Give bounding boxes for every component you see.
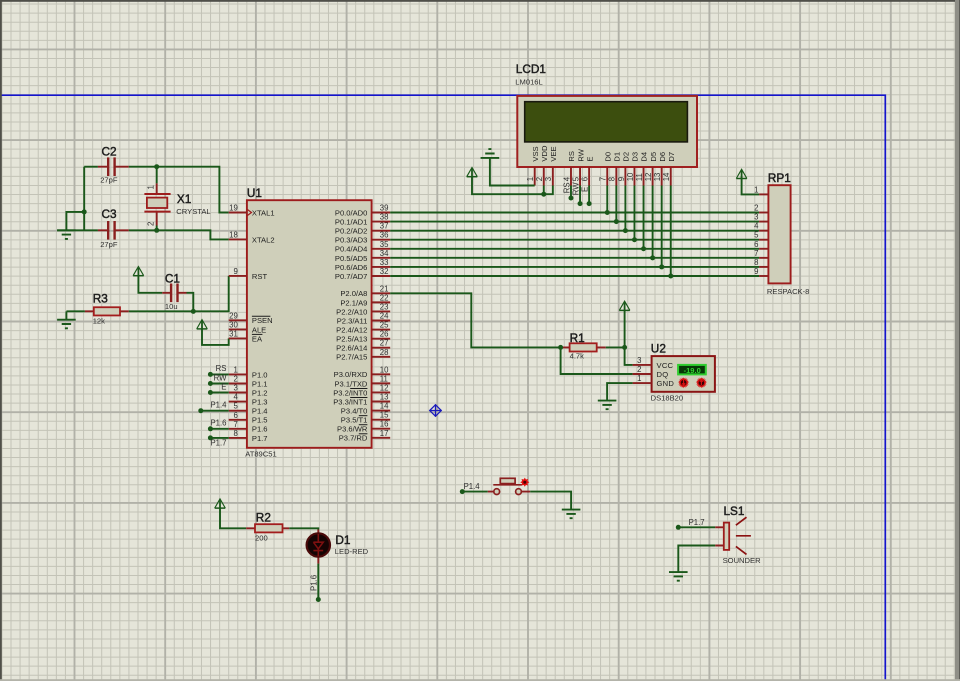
pin 3 (VCC) U2 <box>633 356 674 370</box>
sheet border (blue) <box>0 95 885 681</box>
svg-text:R2: R2 <box>256 511 271 525</box>
pin 17 (P3.7/RD) U1 <box>339 429 391 443</box>
button actuator star <box>520 478 529 487</box>
svg-text:P3.5/T1: P3.5/T1 <box>341 416 368 425</box>
svg-text:P3.2/INT0: P3.2/INT0 <box>333 388 367 397</box>
pin 16 (P3.6/WR) U1 <box>337 420 390 434</box>
pin 26 (P2.5/A13) U1 <box>336 330 390 344</box>
resistor R1 <box>561 331 606 361</box>
svg-text:EA: EA <box>252 334 263 343</box>
svg-text:7: 7 <box>233 420 237 429</box>
node D7/P0.7 junction <box>668 273 673 278</box>
svg-text:AT89C51: AT89C51 <box>245 450 277 459</box>
pin 22 (P2.1/A9) U1 <box>340 293 390 307</box>
svg-text:3: 3 <box>754 213 758 222</box>
pin 3 (P1.2) U1 <box>229 384 268 398</box>
pin 6 RP1 <box>754 240 768 249</box>
svg-text:P3.6/WR: P3.6/WR <box>337 425 368 434</box>
svg-text:5: 5 <box>754 231 759 240</box>
wire P0.2 bus <box>390 230 759 232</box>
wire D4 to P0.4 <box>643 186 645 249</box>
power arrow (R1/U2 VCC) <box>619 301 630 310</box>
U2 button up <box>696 377 707 388</box>
svg-text:12: 12 <box>380 383 389 392</box>
node P1.7 (sounder) <box>676 525 681 530</box>
wire P0.5 bus <box>390 257 759 259</box>
pin 38 (P0.1/AD1) U1 <box>335 213 390 227</box>
temperature sensor U2 DS18B20 body <box>651 341 715 402</box>
svg-text:P1.7: P1.7 <box>252 434 268 443</box>
svg-text:E: E <box>585 157 594 162</box>
wire DQ net <box>561 347 633 374</box>
power arrow (R2) <box>215 499 226 508</box>
svg-text:E: E <box>581 187 590 192</box>
wire P0.7 bus <box>390 275 759 277</box>
svg-text:D4: D4 <box>640 152 649 162</box>
ground (button) <box>562 510 581 519</box>
svg-text:39: 39 <box>380 204 389 213</box>
wire C2 left to node <box>84 166 98 168</box>
microcontroller U1 AT89C51 body <box>245 186 371 459</box>
pin 5 RP1 <box>754 231 768 240</box>
node: C2/X1 junction <box>154 164 159 169</box>
pin 13 (P3.3/INT1) U1 <box>333 393 390 407</box>
svg-text:P0.1/AD1: P0.1/AD1 <box>335 217 368 226</box>
power arrow (EA) <box>197 320 208 329</box>
pin 39 (P0.0/AD0) U1 <box>335 204 390 218</box>
pin 24 (P2.3/A11) U1 <box>337 312 390 326</box>
svg-text:15: 15 <box>380 411 389 420</box>
svg-text:7: 7 <box>599 177 608 181</box>
svg-text:P2.6/A14: P2.6/A14 <box>336 344 367 353</box>
svg-text:RW: RW <box>571 182 580 195</box>
svg-text:P1.7: P1.7 <box>210 438 226 447</box>
svg-text:22: 22 <box>380 293 389 302</box>
svg-text:P0.3/AD3: P0.3/AD3 <box>335 236 368 245</box>
pin 1 (P1.0) U1 <box>229 365 268 379</box>
pin 33 (P0.6/AD6) U1 <box>335 258 390 272</box>
node P1.6 <box>208 426 213 431</box>
svg-text:VSS: VSS <box>531 146 540 161</box>
svg-text:P0.5/AD5: P0.5/AD5 <box>335 254 368 263</box>
pin 14 (P3.4/T0) U1 <box>341 402 390 416</box>
wire net E (LCD) <box>588 186 590 204</box>
wire power to C1 <box>138 276 162 293</box>
cursor crosshair <box>429 404 441 416</box>
wire net RW to U1 <box>210 383 228 385</box>
svg-text:38: 38 <box>380 213 389 222</box>
svg-text:-19.0: -19.0 <box>684 366 701 375</box>
wire net P1.7 to U1 <box>210 437 228 439</box>
svg-text:P1.6: P1.6 <box>252 425 268 434</box>
svg-text:LS1: LS1 <box>724 504 745 518</box>
node: C3/X1 junction <box>154 228 159 233</box>
svg-text:3: 3 <box>233 384 237 393</box>
svg-text:P1.6: P1.6 <box>210 419 226 428</box>
svg-text:R3: R3 <box>93 292 109 306</box>
svg-text:3: 3 <box>637 356 641 365</box>
svg-text:DS18B20: DS18B20 <box>651 394 684 403</box>
wire D1 to node P1.6 <box>317 564 319 600</box>
svg-text:32: 32 <box>380 267 389 276</box>
svg-text:U2: U2 <box>651 341 666 355</box>
svg-text:D0: D0 <box>603 152 612 162</box>
svg-text:P1.7: P1.7 <box>689 518 705 527</box>
pin 9 (D2) LCD1 <box>617 152 631 186</box>
svg-text:P2.5/A13: P2.5/A13 <box>336 335 367 344</box>
wire C1 to RST node <box>187 293 194 312</box>
pin 8 (P1.7) U1 <box>229 429 268 443</box>
svg-text:9: 9 <box>233 267 237 276</box>
svg-text:RS: RS <box>216 364 227 373</box>
svg-text:U1: U1 <box>247 186 262 200</box>
svg-text:12: 12 <box>644 173 653 182</box>
svg-text:P1.4: P1.4 <box>210 401 227 410</box>
wire D1 to P0.1 <box>615 186 617 222</box>
pin 15 (P3.5/T1) U1 <box>341 411 390 425</box>
svg-text:27: 27 <box>380 339 389 348</box>
svg-text:27pF: 27pF <box>100 240 118 249</box>
wire net P1.6 to U1 <box>210 428 228 430</box>
svg-text:2: 2 <box>754 204 758 213</box>
LCD LCD1 LM016L body <box>515 62 697 167</box>
capacitor C2 <box>98 145 129 185</box>
wire ground to R3 <box>66 311 85 319</box>
crystal X1 <box>144 183 210 225</box>
power arrow (RP1) <box>736 169 747 178</box>
node RS (LCD) <box>568 196 573 201</box>
svg-text:LED-RED: LED-RED <box>335 547 369 556</box>
wire C2 right to XTAL1 <box>129 167 229 213</box>
svg-text:C3: C3 <box>102 207 118 221</box>
node P1.6 (bottom) <box>316 597 321 602</box>
pin 13 (D6) LCD1 <box>653 152 667 186</box>
svg-text:P0.2/AD2: P0.2/AD2 <box>335 227 368 236</box>
svg-text:XTAL2: XTAL2 <box>252 235 275 244</box>
svg-text:LCD1: LCD1 <box>516 62 546 76</box>
pin 4 (P1.3) U1 <box>229 393 268 407</box>
svg-text:P1.1: P1.1 <box>252 379 268 388</box>
svg-text:8: 8 <box>754 258 758 267</box>
svg-text:P0.0/AD0: P0.0/AD0 <box>335 208 368 217</box>
node P1.4 <box>198 408 203 413</box>
pin 12 (D5) LCD1 <box>644 152 658 186</box>
pin 4 (RS) LCD1 <box>562 151 576 185</box>
wire net RW (LCD) <box>579 186 581 204</box>
wire net RS to U1 <box>210 373 228 375</box>
svg-text:10: 10 <box>626 172 635 181</box>
wire R3 to RST <box>129 276 229 311</box>
svg-text:13: 13 <box>380 393 389 402</box>
svg-text:8: 8 <box>608 177 617 181</box>
node P1.7 <box>208 435 213 440</box>
pin 5 (RW) LCD1 <box>571 148 585 185</box>
svg-text:11: 11 <box>380 374 388 383</box>
pin 29 (PSEN) U1 <box>229 311 273 325</box>
svg-text:P1.3: P1.3 <box>252 398 268 407</box>
capacitor C1 <box>162 272 186 311</box>
wire U2 GND to ground <box>607 383 633 401</box>
pin 36 (P0.3/AD3) U1 <box>335 231 390 245</box>
svg-text:P3.3/INT1: P3.3/INT1 <box>333 397 367 406</box>
svg-text:2: 2 <box>233 375 237 384</box>
wire X1 pin1 to C2 net <box>156 167 158 184</box>
svg-text:P3.1/TXD: P3.1/TXD <box>334 379 367 388</box>
svg-text:31: 31 <box>229 329 238 338</box>
pin 12 (P3.2/INT0) U1 <box>333 383 390 397</box>
svg-text:4: 4 <box>562 176 571 181</box>
svg-text:12k: 12k <box>93 316 105 325</box>
svg-text:VDD: VDD <box>540 145 549 162</box>
resistor R3 <box>85 292 129 326</box>
svg-text:5: 5 <box>233 402 238 411</box>
pin 37 (P0.2/AD2) U1 <box>335 222 390 236</box>
node: left vertical junction <box>82 209 87 214</box>
svg-text:D6: D6 <box>658 152 667 162</box>
wire P0.3 bus <box>390 239 759 241</box>
wire P0.6 bus <box>390 266 759 268</box>
wire R1 right to power <box>606 346 625 348</box>
node RS <box>208 372 213 377</box>
svg-text:13: 13 <box>653 173 662 182</box>
svg-text:SOUNDER: SOUNDER <box>723 556 761 565</box>
svg-text:9: 9 <box>617 177 626 181</box>
wire power to VDD/VEE <box>472 177 553 195</box>
wire D2 to P0.2 <box>624 186 626 231</box>
node D4/P0.4 junction <box>641 246 646 251</box>
svg-text:P3.0/RXD: P3.0/RXD <box>334 370 368 379</box>
svg-text:P2.7/A15: P2.7/A15 <box>336 353 367 362</box>
svg-text:26: 26 <box>380 330 389 339</box>
resistor pack RP1 RESPACK-8 body <box>767 171 809 296</box>
svg-text:P0.4/AD4: P0.4/AD4 <box>335 245 368 254</box>
wire net RS (LCD) <box>570 186 572 199</box>
svg-text:RESPACK-8: RESPACK-8 <box>767 287 809 296</box>
pin 3 (VEE) LCD1 <box>544 146 558 185</box>
sounder LS1 <box>715 504 761 565</box>
wire P1.4 to button <box>462 491 488 493</box>
pin 11 (P3.1/TXD) U1 <box>334 374 390 388</box>
svg-text:14: 14 <box>380 402 389 411</box>
svg-text:34: 34 <box>380 249 389 258</box>
svg-text:D7: D7 <box>667 152 676 162</box>
svg-text:RP1: RP1 <box>768 171 791 185</box>
svg-text:P2.0/A8: P2.0/A8 <box>340 289 367 298</box>
svg-text:11: 11 <box>635 173 644 181</box>
U2 button down <box>678 377 689 388</box>
svg-text:1: 1 <box>233 365 237 374</box>
wire D6 to P0.6 <box>661 186 663 267</box>
svg-text:P3.4/T0: P3.4/T0 <box>341 406 368 415</box>
power arrow (LCD VDD) <box>467 168 478 177</box>
svg-text:14: 14 <box>662 172 671 181</box>
pin 8 RP1 <box>754 258 768 267</box>
pin 1 (GND) U2 <box>633 374 675 388</box>
svg-text:200: 200 <box>255 533 268 542</box>
svg-text:P1.4: P1.4 <box>252 407 268 416</box>
pin 14 (D7) LCD1 <box>662 152 676 186</box>
svg-text:P1.4: P1.4 <box>464 482 481 491</box>
svg-text:27pF: 27pF <box>100 176 118 185</box>
pin 30 (ALE) U1 <box>229 320 267 334</box>
pin 35 (P0.4/AD4) U1 <box>335 240 390 254</box>
ground (U2) <box>598 401 617 410</box>
svg-text:P1.6: P1.6 <box>310 575 319 591</box>
svg-text:E: E <box>221 382 226 391</box>
svg-text:25: 25 <box>380 321 389 330</box>
svg-text:18: 18 <box>229 230 238 239</box>
svg-text:P0.6/AD6: P0.6/AD6 <box>335 263 368 272</box>
node R1 right <box>622 345 627 350</box>
svg-text:P2.4/A12: P2.4/A12 <box>336 325 367 334</box>
wire D0 to P0.0 <box>606 186 608 213</box>
svg-text:VCC: VCC <box>657 361 674 370</box>
pin 7 (D0) LCD1 <box>599 152 613 186</box>
wire node to ground stem <box>66 212 84 230</box>
node VDD junction <box>541 192 546 197</box>
svg-text:R1: R1 <box>570 331 585 345</box>
ground (oscillator) <box>57 230 76 239</box>
svg-text:6: 6 <box>233 411 237 420</box>
node P1.4 <box>460 489 465 494</box>
node D6/P0.6 junction <box>659 264 664 269</box>
pin 7 RP1 <box>754 249 768 258</box>
svg-text:RW: RW <box>576 148 585 161</box>
svg-text:6: 6 <box>581 177 590 181</box>
svg-text:P2.1/A9: P2.1/A9 <box>340 298 367 307</box>
pin 10 (D3) LCD1 <box>626 152 640 186</box>
wire C3 right to XTAL2 <box>129 230 229 239</box>
wire power to R2 <box>220 508 246 528</box>
svg-text:33: 33 <box>380 258 389 267</box>
pin 11 (D4) LCD1 <box>635 152 649 186</box>
svg-text:RW: RW <box>214 373 227 382</box>
svg-text:GND: GND <box>657 379 675 388</box>
wire sounder bottom to ground <box>678 546 715 573</box>
push button (P1.4) <box>488 478 530 494</box>
svg-text:2: 2 <box>535 177 544 181</box>
svg-text:21: 21 <box>380 284 389 293</box>
svg-text:10u: 10u <box>165 302 178 311</box>
pin 6 (E) LCD1 <box>581 157 595 186</box>
pin 1 RP1 <box>754 185 768 194</box>
svg-text:7: 7 <box>754 249 758 258</box>
ground (R3) <box>57 320 76 329</box>
svg-text:P3.7/RD: P3.7/RD <box>339 434 368 443</box>
pin 10 (P3.0/RXD) U1 <box>334 365 391 379</box>
power arrow (C1) <box>133 267 144 276</box>
svg-text:D1: D1 <box>613 152 622 162</box>
pin 31 (EA) U1 <box>229 329 263 343</box>
svg-text:LM016L: LM016L <box>515 78 542 87</box>
pin 19 (XTAL1) U1 <box>229 204 275 218</box>
wire P0.4 bus <box>390 248 759 250</box>
LED D1 LED-RED <box>307 530 369 564</box>
wire button to ground <box>530 492 571 510</box>
wire P0.1 bus <box>390 221 759 223</box>
svg-text:C2: C2 <box>102 145 117 159</box>
svg-text:VEE: VEE <box>549 146 558 161</box>
svg-text:4: 4 <box>754 222 759 231</box>
pin 9 RP1 <box>754 267 768 276</box>
ground (sounder) <box>669 572 688 581</box>
pin 2 (P1.1) U1 <box>229 375 268 389</box>
svg-text:D2: D2 <box>622 152 631 162</box>
svg-text:P1.5: P1.5 <box>252 416 268 425</box>
wire P2.0 to R1 <box>390 293 560 347</box>
svg-text:P1.2: P1.2 <box>252 388 268 397</box>
pin 32 (P0.7/AD7) U1 <box>335 267 390 281</box>
pin 2 RP1 <box>754 204 768 213</box>
wire D3 to P0.3 <box>633 186 635 240</box>
pin 9 (RST) U1 <box>229 267 268 281</box>
svg-text:30: 30 <box>229 320 238 329</box>
svg-text:9: 9 <box>754 267 758 276</box>
svg-text:P1.0: P1.0 <box>252 370 268 379</box>
wire net E to U1 <box>210 392 228 394</box>
svg-text:2: 2 <box>147 222 156 226</box>
ground (LCD VSS, inverted) <box>481 149 500 158</box>
svg-text:X1: X1 <box>177 192 191 206</box>
pin 8 (D1) LCD1 <box>608 152 622 186</box>
pin 2 (DQ) U2 <box>633 365 669 379</box>
pin 18 (XTAL2) U1 <box>229 230 275 244</box>
wire P1.7 to sounder <box>678 526 715 528</box>
svg-text:23: 23 <box>380 302 389 311</box>
wire X1 pin2 to C3 net <box>156 226 158 231</box>
svg-text:10: 10 <box>380 365 389 374</box>
svg-text:1: 1 <box>754 185 758 194</box>
wire P0.0 bus <box>390 212 759 214</box>
pin 23 (P2.2/A10) U1 <box>336 302 390 316</box>
svg-text:RST: RST <box>252 272 268 281</box>
pin 7 (P1.6) U1 <box>229 420 268 434</box>
wire power to RP1 pin1 <box>742 176 760 194</box>
svg-text:4.7k: 4.7k <box>570 352 585 361</box>
pin 25 (P2.4/A12) U1 <box>336 321 390 335</box>
svg-text:C1: C1 <box>165 272 180 286</box>
svg-text:24: 24 <box>380 312 389 321</box>
svg-text:PSEN: PSEN <box>252 316 273 325</box>
svg-text:P0.7/AD7: P0.7/AD7 <box>335 272 368 281</box>
svg-text:CRYSTAL: CRYSTAL <box>176 207 210 216</box>
wire R2 to D1 <box>289 528 318 529</box>
pin 1 (VSS) LCD1 <box>526 146 540 185</box>
svg-text:RS: RS <box>562 182 571 193</box>
node D5/P0.5 junction <box>650 255 655 260</box>
pin 4 RP1 <box>754 222 768 231</box>
pin 2 (VDD) LCD1 <box>535 145 549 185</box>
wire net P1.4 to U1 <box>201 410 229 412</box>
node RW (LCD) <box>578 201 583 206</box>
node D0/P0.0 junction <box>605 210 610 215</box>
node R1 left <box>558 345 563 350</box>
svg-text:ALE: ALE <box>252 325 266 334</box>
svg-text:1: 1 <box>637 374 641 383</box>
svg-text:35: 35 <box>380 240 389 249</box>
svg-text:17: 17 <box>380 429 389 438</box>
wire VSS to ground <box>490 158 535 186</box>
svg-text:XTAL1: XTAL1 <box>252 208 275 217</box>
svg-text:D3: D3 <box>631 152 640 162</box>
svg-text:3: 3 <box>544 177 553 181</box>
svg-text:6: 6 <box>754 240 758 249</box>
svg-text:RS: RS <box>567 151 576 162</box>
svg-text:16: 16 <box>380 420 389 429</box>
node D2/P0.2 junction <box>623 228 628 233</box>
svg-text:1: 1 <box>526 177 535 181</box>
svg-text:28: 28 <box>380 348 389 357</box>
